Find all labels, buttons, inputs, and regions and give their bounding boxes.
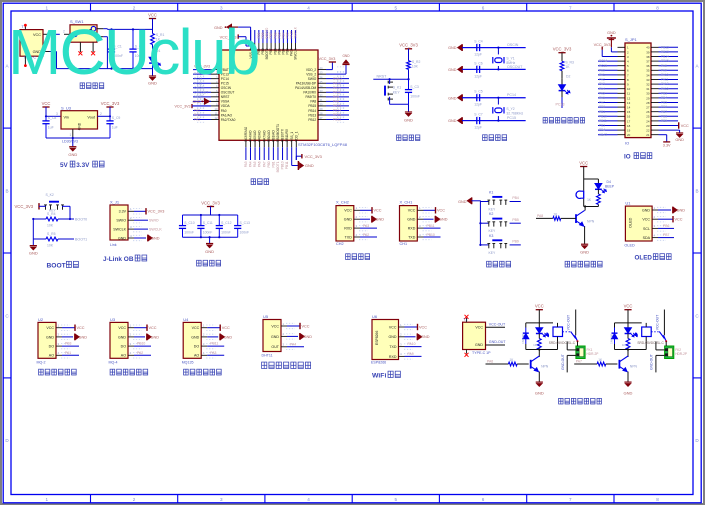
svg-text:PA10/RX: PA10/RX xyxy=(303,91,317,95)
connector T1 TYPE-C power input xyxy=(20,24,43,67)
svg-text:PA10: PA10 xyxy=(408,342,416,346)
svg-text:VCC-OUT: VCC-OUT xyxy=(489,322,506,326)
capacitor C6 xyxy=(462,68,477,70)
svg-text:PA3: PA3 xyxy=(210,351,216,355)
svg-text:PB10: PB10 xyxy=(427,233,435,237)
svg-text:PB3: PB3 xyxy=(65,342,72,346)
svg-text:21: 21 xyxy=(646,133,650,137)
WiFi pin 4 xyxy=(399,355,405,357)
svg-text:S_C11: S_C11 xyxy=(203,221,213,225)
JP1 right pin 38 xyxy=(651,56,659,58)
svg-text:B: B xyxy=(696,188,699,193)
MCU left pin 9 xyxy=(211,105,219,107)
svg-text:3.3V: 3.3V xyxy=(663,143,671,147)
svg-text:K1: K1 xyxy=(489,191,493,195)
LED D2 xyxy=(561,79,563,85)
svg-text:PB3: PB3 xyxy=(599,124,605,128)
X_CH1 pin 3 xyxy=(417,227,423,229)
alarm bottom rail xyxy=(597,205,599,207)
svg-text:GND: GND xyxy=(305,163,314,168)
svg-text:KEY: KEY xyxy=(489,251,497,255)
svg-text:PB2/BOOT1: PB2/BOOT1 xyxy=(276,124,280,142)
MCU right pin 23 xyxy=(318,114,326,116)
svg-text:NRST: NRST xyxy=(377,75,388,79)
svg-text:1uF: 1uF xyxy=(112,126,118,130)
alarm top rail xyxy=(584,178,599,180)
svg-text:PA11: PA11 xyxy=(661,78,669,82)
JP1 left pin 18 xyxy=(618,125,626,127)
svg-text:PC15: PC15 xyxy=(599,64,607,68)
J1 pin 2 xyxy=(128,219,134,221)
MCU bottom pin 23 xyxy=(291,140,293,147)
ground filter xyxy=(209,237,211,243)
svg-text:5: 5 xyxy=(395,497,398,502)
svg-text:S_C4: S_C4 xyxy=(474,40,483,44)
svg-text:PB6: PB6 xyxy=(661,105,667,109)
svg-text:VDD_2: VDD_2 xyxy=(306,68,317,72)
svg-text:GND: GND xyxy=(342,54,350,58)
svg-text:14: 14 xyxy=(627,106,631,110)
svg-text:PC14: PC14 xyxy=(599,59,607,63)
svg-text:PA9: PA9 xyxy=(661,68,667,72)
MCU right pin 16 xyxy=(318,82,326,84)
section label: temp-humidity module xyxy=(262,362,267,368)
svg-text:SWCLK: SWCLK xyxy=(149,227,162,231)
svg-text:VCC: VCC xyxy=(675,218,683,222)
svg-text:100nF: 100nF xyxy=(203,230,213,234)
svg-text:PA3: PA3 xyxy=(363,224,369,228)
svg-text:VCC_3V3: VCC_3V3 xyxy=(319,57,336,61)
capacitor C2 xyxy=(132,29,134,49)
switch SW1 power switch xyxy=(64,19,103,52)
J1 pin 4 xyxy=(128,237,134,239)
svg-text:40: 40 xyxy=(646,46,650,50)
ground regulator xyxy=(72,138,74,147)
svg-text:VCC: VCC xyxy=(624,304,633,309)
MCU left pin 4 xyxy=(211,82,219,84)
MCU top pin 45 xyxy=(282,43,284,50)
svg-text:2: 2 xyxy=(100,112,102,116)
svg-text:BOOT1: BOOT1 xyxy=(75,238,87,242)
svg-text:GND: GND xyxy=(448,46,457,50)
svg-text:LD30/3V3: LD30/3V3 xyxy=(62,140,78,144)
svg-text:PA4: PA4 xyxy=(249,161,253,167)
svg-text:KEY: KEY xyxy=(393,90,401,94)
MQ135 pin 4 xyxy=(201,354,207,356)
svg-text:32.768KHz: 32.768KHz xyxy=(506,111,523,115)
svg-text:PB11: PB11 xyxy=(427,224,435,228)
svg-text:X_CH2: X_CH2 xyxy=(336,200,350,205)
svg-text:VSS_2: VSS_2 xyxy=(306,72,316,76)
svg-text:1K: 1K xyxy=(565,65,570,69)
resistor R5 BOOT1 xyxy=(33,238,46,240)
svg-text:100nF: 100nF xyxy=(410,94,420,98)
relay coil mark FK1 xyxy=(547,333,549,337)
svg-text:SWIO: SWIO xyxy=(116,219,126,223)
svg-text:HDR-2P: HDR-2P xyxy=(587,352,599,356)
svg-text:OLED: OLED xyxy=(635,255,653,262)
JP1 left pin 17 xyxy=(618,120,626,122)
MCU right VCC_3V3 hookup row1 xyxy=(326,69,332,71)
JP1 right pin 36 xyxy=(651,65,659,67)
U1 pin 1 xyxy=(652,209,658,211)
svg-text:S_JP1: S_JP1 xyxy=(625,37,638,42)
capacitor C4 xyxy=(462,47,477,49)
MCU right pin 22 xyxy=(318,109,326,111)
svg-text:GND: GND xyxy=(389,335,397,339)
svg-text:13: 13 xyxy=(627,101,631,105)
resistor R3 xyxy=(560,61,564,70)
MCU bottom pin 15 xyxy=(254,140,256,147)
svg-text:NPN: NPN xyxy=(630,365,638,369)
DHT11 pin 2 xyxy=(281,335,287,337)
J1 pin 1 xyxy=(128,210,134,212)
svg-text:PA0: PA0 xyxy=(599,68,605,72)
MCU top pin 42 xyxy=(270,43,272,50)
MCU left pin 2 xyxy=(211,73,219,75)
svg-text:16: 16 xyxy=(627,115,631,119)
section label: power circuit xyxy=(80,83,84,89)
svg-text:19: 19 xyxy=(627,129,631,133)
svg-text:SWCLK: SWCLK xyxy=(294,26,298,38)
svg-text:10: 10 xyxy=(627,87,631,91)
DHT11 pin 1 xyxy=(281,325,287,327)
svg-text:OSCIN: OSCIN xyxy=(507,43,519,47)
svg-text:GND: GND xyxy=(29,251,38,256)
svg-text:GND: GND xyxy=(205,249,214,254)
svg-text:VCC: VCC xyxy=(192,326,200,330)
MCU top pin 41 xyxy=(266,43,268,50)
JP1 left pin 12 xyxy=(618,97,626,99)
MQ135 pin 2 xyxy=(201,336,207,338)
svg-text:33: 33 xyxy=(320,89,323,93)
svg-text:MCUclub: MCUclub xyxy=(8,16,259,88)
svg-text:VCC_3V3: VCC_3V3 xyxy=(101,101,120,106)
wire VCC to regulator Vin xyxy=(46,115,61,117)
svg-text:CH2: CH2 xyxy=(336,242,344,246)
terminal block FK2 xyxy=(665,346,674,359)
ground of power circuit xyxy=(152,69,154,76)
svg-text:GND: GND xyxy=(68,152,77,157)
svg-text:SCL: SCL xyxy=(643,227,650,231)
svg-text:32: 32 xyxy=(646,83,650,87)
section label: serial circuit xyxy=(346,254,351,260)
key K1 xyxy=(480,201,488,203)
svg-text:24: 24 xyxy=(320,66,323,70)
svg-text:PB12: PB12 xyxy=(333,118,341,122)
MCU right pin 21 xyxy=(318,105,326,107)
section label: crystal circuit xyxy=(483,135,488,141)
MCU right pin 14 xyxy=(318,73,326,75)
svg-text:7: 7 xyxy=(569,5,572,10)
svg-text:12pF: 12pF xyxy=(474,126,482,130)
MCU bottom pin 13 xyxy=(245,140,247,147)
svg-text:7: 7 xyxy=(569,497,572,502)
svg-text:1K: 1K xyxy=(533,343,537,347)
svg-text:PA5/AO: PA5/AO xyxy=(253,130,257,142)
svg-text:GND: GND xyxy=(580,250,589,255)
svg-text:35: 35 xyxy=(320,80,323,84)
svg-text:PC13: PC13 xyxy=(556,103,565,107)
JP1 left pin 2 xyxy=(618,51,626,53)
X_CH1 pin 2 xyxy=(417,218,423,220)
svg-text:AO: AO xyxy=(49,354,54,358)
svg-text:GND: GND xyxy=(271,335,279,339)
svg-text:GND: GND xyxy=(118,236,126,240)
svg-text:PA14/USB-DM: PA14/USB-DM xyxy=(295,86,316,90)
svg-text:K2: K2 xyxy=(489,212,493,216)
svg-text:PA13/USB-DP: PA13/USB-DP xyxy=(296,82,317,86)
svg-text:S_Y1: S_Y1 xyxy=(506,57,514,61)
svg-text:15: 15 xyxy=(627,110,631,114)
svg-text:GND: GND xyxy=(535,390,544,395)
svg-text:HDR-2P: HDR-2P xyxy=(675,352,687,356)
relay led resistor FK2 xyxy=(626,339,630,350)
no-connect marks under switch xyxy=(78,51,82,55)
svg-text:VCC: VCC xyxy=(642,218,650,222)
svg-text:S_R3: S_R3 xyxy=(565,61,574,65)
svg-text:VCC: VCC xyxy=(118,326,126,330)
JP1 right pin 30 xyxy=(651,92,659,94)
svg-text:GND: GND xyxy=(624,390,633,395)
svg-text:34: 34 xyxy=(646,73,650,77)
svg-text:VSSA: VSSA xyxy=(221,100,230,104)
svg-text:PA14: PA14 xyxy=(333,86,341,90)
X_CH1 pin 1 xyxy=(417,209,423,211)
svg-text:PA12: PA12 xyxy=(661,82,669,86)
svg-text:IO: IO xyxy=(625,141,629,146)
regulator output wire xyxy=(98,115,111,117)
JP1 left pin 6 xyxy=(618,69,626,71)
key K3 xyxy=(480,244,488,246)
svg-text:PB1: PB1 xyxy=(271,161,275,167)
svg-text:PA10: PA10 xyxy=(661,73,669,77)
svg-text:RXD: RXD xyxy=(389,355,397,359)
svg-text:1N4148: 1N4148 xyxy=(610,334,614,344)
svg-text:PA13: PA13 xyxy=(333,81,341,85)
svg-text:PA4/AO: PA4/AO xyxy=(249,130,253,142)
section label: MQ-2 module xyxy=(39,369,44,375)
svg-text:PA7: PA7 xyxy=(262,161,266,167)
svg-text:K3: K3 xyxy=(489,234,493,238)
MQ-4 pin 4 xyxy=(128,354,134,356)
svg-text:GND-OUT: GND-OUT xyxy=(561,354,565,370)
key K1 reset button xyxy=(385,81,393,101)
svg-text:S_C8: S_C8 xyxy=(48,116,57,120)
resistor R7 alarm xyxy=(597,194,601,205)
svg-text:VCC_3V3: VCC_3V3 xyxy=(175,105,191,109)
svg-text:PB8: PB8 xyxy=(661,114,667,118)
svg-text:Link: Link xyxy=(110,243,117,247)
svg-text:KEY: KEY xyxy=(489,229,497,233)
svg-text:1: 1 xyxy=(46,5,49,10)
base resistor FK1 xyxy=(486,363,509,365)
JP1 right pin 22 xyxy=(651,129,659,131)
svg-text:3: 3 xyxy=(220,497,223,502)
svg-text:36: 36 xyxy=(320,75,323,79)
capacitor C7 xyxy=(462,120,477,122)
MCU right pin 24 xyxy=(318,119,326,121)
svg-text:MQ-4: MQ-4 xyxy=(109,360,118,364)
svg-text:PC14: PC14 xyxy=(507,93,516,97)
svg-text:29: 29 xyxy=(320,107,323,111)
svg-text:OUT: OUT xyxy=(271,345,279,349)
svg-text:34: 34 xyxy=(320,84,323,88)
capacitor C5 xyxy=(462,97,477,99)
svg-text:PB14: PB14 xyxy=(661,55,669,59)
capacitor C8 xyxy=(45,116,47,121)
svg-text:33: 33 xyxy=(646,78,650,82)
svg-text:GND: GND xyxy=(475,343,483,347)
svg-text:D2: D2 xyxy=(566,75,570,79)
svg-text:GND: GND xyxy=(421,335,430,339)
svg-text:PA8: PA8 xyxy=(537,214,543,218)
svg-text:6: 6 xyxy=(482,5,485,10)
svg-text:PB4: PB4 xyxy=(599,128,605,132)
bottom rail of power circuit xyxy=(57,68,153,70)
svg-text:GND: GND xyxy=(304,335,313,339)
svg-text:PB10: PB10 xyxy=(281,161,285,169)
svg-text:S_K2: S_K2 xyxy=(46,193,54,197)
svg-text:GND: GND xyxy=(458,200,467,204)
JP1 left pin 20 xyxy=(618,134,626,136)
node NRST xyxy=(373,78,408,80)
MCU right pin 13 xyxy=(318,69,326,71)
svg-text:VCC: VCC xyxy=(389,325,397,329)
svg-text:PB3: PB3 xyxy=(661,91,667,95)
svg-text:10K: 10K xyxy=(412,65,419,69)
svg-text:GND: GND xyxy=(675,138,684,142)
svg-text:PA3: PA3 xyxy=(244,161,248,167)
svg-text:4: 4 xyxy=(307,497,310,502)
svg-text:PB12: PB12 xyxy=(308,118,316,122)
svg-text:PB7: PB7 xyxy=(661,110,667,114)
WiFi pin 3 xyxy=(399,346,405,348)
MCU top pin 46 xyxy=(286,43,288,50)
svg-text:IO: IO xyxy=(624,154,631,161)
svg-text:S_C3: S_C3 xyxy=(410,85,419,89)
MCU left pin 8 xyxy=(211,100,219,102)
svg-text:TXD: TXD xyxy=(345,235,353,239)
LED D4 beep xyxy=(597,179,599,184)
svg-text:PB4: PB4 xyxy=(661,96,667,100)
svg-text:PB9: PB9 xyxy=(512,240,519,244)
svg-text:PA4: PA4 xyxy=(290,342,296,346)
net PC13 run led xyxy=(561,97,563,108)
svg-text:20: 20 xyxy=(627,133,631,137)
MCU left pin 11 xyxy=(211,114,219,116)
svg-text:PB12: PB12 xyxy=(661,45,669,49)
svg-text:S_C13: S_C13 xyxy=(240,221,250,225)
JP1 right pin 33 xyxy=(651,79,659,81)
svg-text:NRST: NRST xyxy=(194,95,203,99)
svg-text:GND: GND xyxy=(79,335,88,339)
section label: program run indicator xyxy=(543,118,547,123)
svg-text:1K: 1K xyxy=(622,343,626,347)
svg-text:100nF: 100nF xyxy=(240,230,250,234)
svg-text:GND: GND xyxy=(193,100,201,104)
filter top rail xyxy=(183,214,238,216)
svg-text:J-Link OB: J-Link OB xyxy=(103,256,134,263)
wire K2 down to BOOT0 row xyxy=(69,206,71,219)
svg-text:PB15: PB15 xyxy=(661,59,669,63)
svg-text:GND: GND xyxy=(404,118,413,123)
MCU left pin 10 xyxy=(211,109,219,111)
svg-text:OLED: OLED xyxy=(629,217,633,228)
svg-text:24: 24 xyxy=(646,119,650,123)
svg-text:S_C9: S_C9 xyxy=(112,116,121,120)
svg-text:12: 12 xyxy=(215,116,218,120)
svg-text:1N4148: 1N4148 xyxy=(521,334,525,344)
JP1 wire gnd to pin2 xyxy=(610,47,612,52)
svg-text:GND: GND xyxy=(439,218,448,222)
JP1 right pin 24 xyxy=(651,120,659,122)
svg-text:37: 37 xyxy=(646,60,650,64)
svg-text:100nF: 100nF xyxy=(184,230,194,234)
filter bottom rail xyxy=(183,236,238,238)
svg-text:23: 23 xyxy=(646,124,650,128)
svg-text:32: 32 xyxy=(320,93,323,97)
svg-text:OSCOUT: OSCOUT xyxy=(221,91,235,95)
svg-text:U4: U4 xyxy=(183,317,189,322)
svg-text:GND-OUT: GND-OUT xyxy=(489,340,507,344)
MCU right pin 19 xyxy=(318,96,326,98)
transistor Q FK1 xyxy=(538,350,540,358)
capacitor C1 xyxy=(111,29,113,49)
svg-text:VCC: VCC xyxy=(374,209,382,213)
svg-text:VCC: VCC xyxy=(222,326,230,330)
JP1 right pin 32 xyxy=(651,83,659,85)
svg-text:S_Y2: S_Y2 xyxy=(506,107,514,111)
svg-text:VCC_3V3: VCC_3V3 xyxy=(399,43,418,48)
relay switch contact FK1 xyxy=(575,310,577,336)
wire key bottom to cap bottom xyxy=(390,103,409,105)
section label: MQ135 module xyxy=(184,369,189,375)
svg-text:VCC: VCC xyxy=(579,161,588,166)
svg-text:U6: U6 xyxy=(372,314,378,319)
svg-text:PA6: PA6 xyxy=(487,360,493,364)
JP1 left pin 5 xyxy=(618,65,626,67)
MCU right GND hookup row2 xyxy=(326,73,346,75)
op MCU U2 STM32F103C8T6 xyxy=(219,50,318,140)
svg-text:GND: GND xyxy=(407,218,415,222)
MQ-2 pin 3 xyxy=(56,345,62,347)
svg-text:6: 6 xyxy=(482,497,485,502)
capacitor C13 filter xyxy=(237,215,239,226)
svg-text:PA2: PA2 xyxy=(194,118,200,122)
MCU right pin 17 xyxy=(318,87,326,89)
MQ-2 pin 4 xyxy=(56,354,62,356)
svg-text:1: 1 xyxy=(70,133,72,137)
svg-text:Vin: Vin xyxy=(64,116,69,120)
svg-text:TXD: TXD xyxy=(408,235,416,239)
svg-text:AO: AO xyxy=(194,354,199,358)
wire R2 to NRST node xyxy=(408,69,410,79)
MCU left pin 5 xyxy=(211,87,219,89)
svg-text:28: 28 xyxy=(646,101,650,105)
svg-text:25: 25 xyxy=(646,115,650,119)
svg-text:WiFi: WiFi xyxy=(372,373,386,380)
svg-text:31: 31 xyxy=(320,98,323,102)
svg-text:PB14: PB14 xyxy=(308,109,316,113)
svg-text:GND: GND xyxy=(191,335,199,339)
svg-text:PB10: PB10 xyxy=(137,342,145,346)
svg-text:27: 27 xyxy=(646,106,650,110)
MQ135 pin 1 xyxy=(201,327,207,329)
svg-text:11: 11 xyxy=(627,92,630,96)
section label: relay control circuit xyxy=(559,398,563,404)
svg-text:8: 8 xyxy=(656,497,659,502)
